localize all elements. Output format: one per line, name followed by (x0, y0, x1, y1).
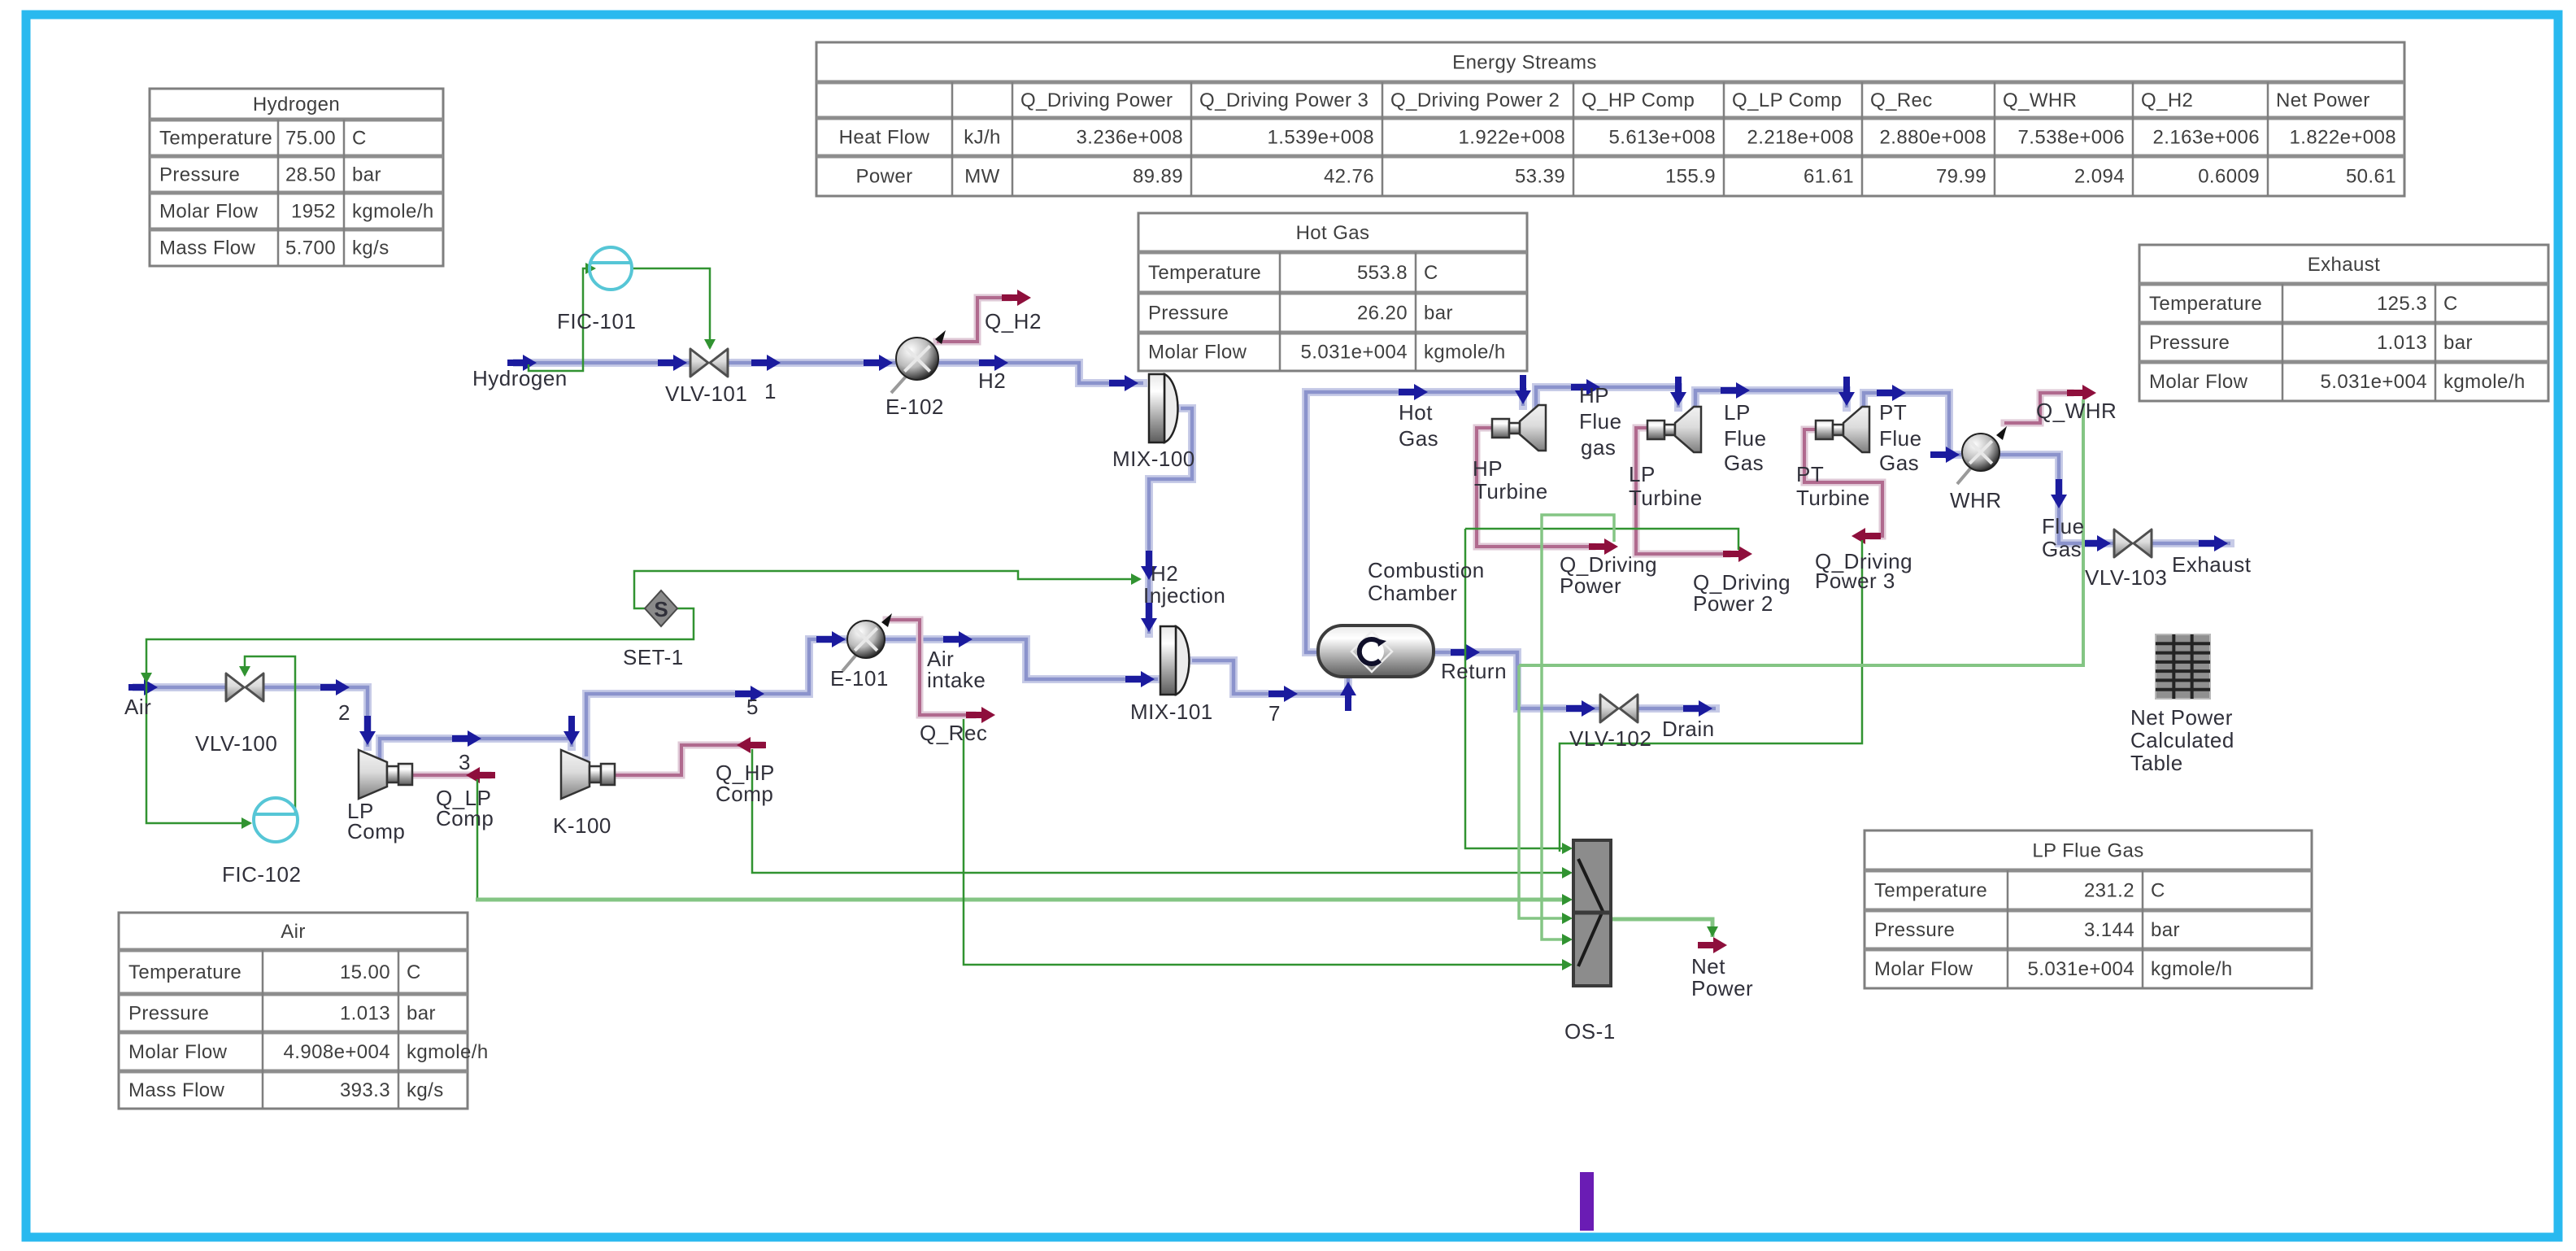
svg-text:K-100: K-100 (553, 813, 611, 838)
svg-text:bar: bar (407, 1003, 436, 1025)
svg-text:5.031e+004: 5.031e+004 (1301, 342, 1408, 364)
svg-text:26.20: 26.20 (1357, 303, 1408, 325)
wire stream 5 : K-100 to E-101 (586, 639, 849, 756)
svg-text:5.613e+008: 5.613e+008 (1609, 127, 1716, 149)
svg-text:VLV-102: VLV-102 (1569, 726, 1651, 751)
wire energy Q_Driving Power 2 from LP Turbine (1636, 428, 1727, 554)
svg-text:3.236e+008: 3.236e+008 (1077, 127, 1183, 149)
calculated table icon (2156, 634, 2210, 699)
svg-text:1952: 1952 (291, 201, 336, 223)
svg-text:Pressure: Pressure (128, 1003, 209, 1025)
wire energy Q_WHR from WHR (2004, 393, 2070, 423)
svg-text:Comp: Comp (716, 782, 773, 806)
svg-text:Power 3: Power 3 (1815, 569, 1895, 593)
wire energy Q_LP Comp to LP Comp (413, 772, 488, 779)
wire green Q_Driving Power 2 branch (1465, 529, 1738, 550)
svg-text:SET-1: SET-1 (623, 645, 684, 669)
wire stream Air to VLV-100 (137, 683, 228, 691)
svg-text:Turbine: Turbine (1474, 479, 1548, 503)
svg-text:C: C (352, 128, 367, 150)
wire stream 2 : VLV-100 to LP Comp (263, 687, 368, 747)
valve VLV-100 (226, 673, 263, 701)
svg-text:4.908e+004: 4.908e+004 (284, 1041, 390, 1063)
svg-text:1.539e+008: 1.539e+008 (1268, 127, 1374, 149)
svg-text:intake: intake (927, 668, 986, 692)
table Hot Gas (1138, 213, 1527, 371)
svg-text:1.922e+008: 1.922e+008 (1459, 127, 1565, 149)
svg-text:79.99: 79.99 (1936, 166, 1986, 188)
svg-text:393.3: 393.3 (340, 1079, 390, 1101)
compressor LP Comp (359, 750, 412, 799)
svg-text:5.031e+004: 5.031e+004 (2321, 371, 2427, 393)
turbine PT Turbine (1816, 407, 1869, 452)
table Exhaust (2139, 245, 2548, 401)
combustion chamber vessel (1318, 625, 1434, 677)
svg-text:bar: bar (2151, 919, 2180, 941)
svg-text:553.8: 553.8 (1357, 262, 1408, 284)
svg-text:Net Power: Net Power (2130, 705, 2233, 730)
svg-text:Temperature: Temperature (1148, 262, 1261, 284)
svg-text:Heat Flow: Heat Flow (839, 127, 930, 149)
svg-text:Gas: Gas (1724, 451, 1764, 475)
svg-text:Mass Flow: Mass Flow (159, 238, 256, 259)
svg-text:Q_Rec: Q_Rec (920, 721, 987, 745)
svg-text:Q_WHR: Q_WHR (2003, 89, 2077, 111)
svg-text:2.094: 2.094 (2074, 166, 2125, 188)
svg-text:Pressure: Pressure (2149, 332, 2230, 354)
svg-text:kgmole/h: kgmole/h (2151, 958, 2233, 980)
svg-text:53.39: 53.39 (1515, 166, 1565, 188)
svg-text:MW: MW (964, 166, 999, 188)
wire FIC-102 output loop to VLV-100 (245, 656, 295, 813)
svg-text:2.218e+008: 2.218e+008 (1747, 127, 1854, 149)
wire green Q_Driving Power to OS-1 input 5 (1542, 515, 1614, 939)
wire stream Drain : VLV-102 outlet (1637, 704, 1716, 713)
svg-text:C: C (1424, 262, 1438, 284)
svg-text:Hydrogen: Hydrogen (472, 366, 568, 390)
valve VLV-101 (690, 349, 728, 377)
svg-text:Drain: Drain (1662, 717, 1715, 741)
svg-text:231.2: 231.2 (2084, 880, 2134, 902)
svg-text:Comp: Comp (436, 806, 494, 830)
svg-text:Pressure: Pressure (159, 164, 240, 186)
wire green Q_HP Comp to OS-1 input 2 (752, 749, 1568, 873)
svg-text:Hydrogen: Hydrogen (253, 94, 340, 116)
svg-text:Return: Return (1441, 659, 1507, 683)
compressor K-100 (561, 750, 615, 799)
svg-text:C: C (2443, 293, 2458, 315)
svg-text:Hot: Hot (1399, 400, 1433, 425)
svg-text:Q_Driving Power 3: Q_Driving Power 3 (1199, 89, 1368, 111)
heat exchanger E-101 (842, 613, 892, 671)
svg-text:Pressure: Pressure (1874, 919, 1955, 941)
wire energy Q_Driving Power 3 from PT Turbine (1804, 429, 1882, 536)
wire stream 3 : LP Comp to K-100 (380, 739, 572, 760)
svg-text:Combustion: Combustion (1368, 558, 1485, 582)
mixer MIX-101 (1160, 626, 1189, 695)
svg-text:bar: bar (1424, 303, 1453, 325)
svg-text:E-102: E-102 (885, 394, 944, 419)
set operator SET-1 (645, 591, 677, 626)
svg-text:C: C (407, 961, 421, 983)
svg-text:kgmole/h: kgmole/h (352, 201, 434, 223)
valve VLV-103 (2114, 530, 2152, 557)
svg-text:2.880e+008: 2.880e+008 (1880, 127, 1986, 149)
wire MIX-100 outlet / H2 Injection to MIX-101 (1149, 408, 1192, 634)
svg-text:Q_LP Comp: Q_LP Comp (1732, 89, 1842, 111)
svg-text:HP: HP (1473, 456, 1503, 481)
svg-text:125.3: 125.3 (2377, 293, 2427, 315)
wire stream 7 : MIX-101 to Combustion Chamber (1192, 660, 1348, 694)
svg-text:OS-1: OS-1 (1564, 1019, 1616, 1044)
svg-text:Hot Gas: Hot Gas (1296, 222, 1370, 244)
svg-text:Q_Rec: Q_Rec (1870, 89, 1933, 111)
svg-text:3: 3 (459, 750, 471, 774)
svg-text:Gas: Gas (2042, 537, 2082, 561)
wire green to OS-1 input 4 (1519, 665, 1568, 918)
svg-text:Net: Net (1691, 954, 1725, 979)
svg-text:Exhaust: Exhaust (2308, 254, 2381, 276)
svg-text:Molar Flow: Molar Flow (128, 1041, 228, 1063)
svg-text:MIX-101: MIX-101 (1130, 700, 1213, 724)
wire energy Q_Rec from E-101 (886, 620, 973, 715)
svg-text:Q_H2: Q_H2 (985, 309, 1042, 333)
svg-text:5.031e+004: 5.031e+004 (2028, 958, 2134, 980)
svg-text:H2: H2 (978, 368, 1006, 393)
svg-text:50.61: 50.61 (2346, 166, 2396, 188)
wire energy Q_HP Comp to K-100 (616, 745, 761, 775)
svg-text:VLV-101: VLV-101 (665, 381, 747, 406)
svg-text:Injection: Injection (1143, 583, 1225, 608)
wire green Q_Driving Power 3 down (1560, 540, 1862, 852)
svg-text:Air: Air (124, 695, 151, 719)
svg-text:VLV-100: VLV-100 (195, 731, 277, 756)
svg-text:155.9: 155.9 (1665, 166, 1716, 188)
svg-text:E-101: E-101 (830, 666, 889, 691)
svg-text:Flue: Flue (1724, 426, 1767, 451)
svg-text:Q_WHR: Q_WHR (2036, 399, 2117, 423)
svg-text:Power: Power (1691, 976, 1753, 1000)
wire stream Hot Gas : Combustion Chamber to HP Turbine (1306, 392, 1523, 652)
svg-text:7: 7 (1268, 701, 1281, 726)
svg-text:PT: PT (1796, 462, 1824, 486)
svg-text:2.163e+006: 2.163e+006 (2153, 127, 2260, 149)
svg-text:5: 5 (746, 695, 759, 719)
wire stream Return : Combustion Chamber to VLV-102 (1431, 652, 1601, 708)
svg-text:Mass Flow: Mass Flow (128, 1079, 225, 1101)
svg-text:1.013: 1.013 (340, 1003, 390, 1025)
wire FIC-101 process tap from Hydrogen stream (529, 268, 594, 371)
svg-text:kg/s: kg/s (352, 238, 389, 259)
wire green Q_LP Comp to OS-1 input 3 (476, 779, 479, 900)
svg-text:S: S (654, 597, 668, 621)
svg-text:1: 1 (764, 379, 777, 403)
wire stream Hydrogen to VLV-101 (517, 359, 692, 367)
svg-text:Net Power: Net Power (2276, 89, 2370, 111)
svg-text:PT: PT (1879, 400, 1907, 425)
svg-text:Power 2: Power 2 (1693, 591, 1773, 616)
svg-text:FIC-101: FIC-101 (557, 309, 636, 333)
svg-text:Q_H2: Q_H2 (2141, 89, 2193, 111)
svg-text:MIX-100: MIX-100 (1112, 447, 1195, 471)
svg-text:Molar Flow: Molar Flow (1148, 342, 1247, 364)
mixer MIX-100 (1149, 374, 1177, 442)
svg-text:Calculated: Calculated (2130, 728, 2234, 752)
svg-text:LP: LP (1629, 462, 1656, 486)
turbine HP Turbine (1492, 405, 1546, 451)
svg-text:Temperature: Temperature (1874, 880, 1987, 902)
wire stream PT Flue Gas : PT Turbine to WHR (1864, 393, 1961, 455)
wire green Q_WHR down and across (1519, 399, 2083, 665)
heat exchanger WHR (1957, 426, 2007, 484)
svg-text:Chamber: Chamber (1368, 581, 1457, 605)
green arrows into OS-1 (1562, 843, 1573, 854)
svg-text:75.00: 75.00 (285, 128, 336, 150)
svg-text:C: C (2151, 880, 2165, 902)
svg-text:HP: HP (1579, 383, 1609, 408)
svg-text:Temperature: Temperature (128, 961, 241, 983)
svg-text:kg/s: kg/s (407, 1079, 444, 1101)
svg-text:7.538e+006: 7.538e+006 (2018, 127, 2125, 149)
svg-text:Molar Flow: Molar Flow (159, 201, 259, 223)
wire energy Q_H2 from E-102 (937, 298, 1008, 342)
svg-text:kgmole/h: kgmole/h (407, 1041, 489, 1063)
svg-text:Q_Driving Power: Q_Driving Power (1020, 89, 1173, 111)
svg-text:Temperature: Temperature (2149, 293, 2262, 315)
svg-text:Gas: Gas (1879, 451, 1919, 475)
svg-text:Power: Power (855, 166, 912, 188)
wire green OS-1 output to Net Power (1612, 919, 1712, 937)
wire green Q_Rec to OS-1 input 6 (964, 719, 1568, 965)
svg-text:kgmole/h: kgmole/h (2443, 371, 2526, 393)
svg-text:Turbine: Turbine (1796, 486, 1870, 510)
valve VLV-102 (1600, 695, 1638, 722)
controller FIC-101 (590, 247, 632, 290)
heat exchanger E-102 (891, 330, 946, 393)
wire FIC-101 output to VLV-101 (632, 268, 710, 348)
svg-text:H2: H2 (1151, 561, 1178, 586)
svg-text:3.144: 3.144 (2084, 919, 2134, 941)
svg-text:5.700: 5.700 (285, 238, 336, 259)
wire energy Q_Driving Power from HP Turbine (1477, 428, 1592, 547)
svg-text:Flue: Flue (1879, 426, 1922, 451)
svg-text:61.61: 61.61 (1804, 166, 1854, 188)
svg-text:bar: bar (2443, 332, 2473, 354)
svg-text:Molar Flow: Molar Flow (2149, 371, 2248, 393)
turbine LP Turbine (1647, 407, 1701, 452)
svg-text:Energy Streams: Energy Streams (1452, 52, 1597, 74)
svg-text:Pressure: Pressure (1148, 303, 1229, 325)
purple scrollbar mark (1580, 1172, 1594, 1231)
wire stream HP Flue gas : HP Turbine to LP Turbine (1536, 387, 1678, 408)
svg-text:Flue: Flue (1579, 409, 1622, 434)
svg-text:Comp: Comp (347, 819, 405, 843)
wire stream Flue Gas : WHR to VLV-103 (1999, 455, 2115, 543)
svg-text:Gas: Gas (1399, 426, 1438, 451)
svg-text:Air: Air (281, 921, 306, 943)
table LP Flue Gas (1865, 830, 2312, 988)
wire stream 1 : VLV-101 to E-102 (726, 359, 898, 367)
svg-text:Molar Flow: Molar Flow (1874, 958, 1973, 980)
svg-text:2: 2 (338, 700, 350, 725)
wire stream LP Flue Gas : LP Turbine to PT Turbine (1695, 390, 1847, 410)
table Air (119, 913, 489, 1109)
svg-text:28.50: 28.50 (285, 164, 336, 186)
stream arrows (507, 355, 537, 371)
svg-text:0.6009: 0.6009 (2198, 166, 2260, 188)
svg-text:kJ/h: kJ/h (964, 127, 1001, 149)
svg-text:kgmole/h: kgmole/h (1424, 342, 1506, 364)
svg-text:Temperature: Temperature (159, 128, 272, 150)
svg-text:gas: gas (1581, 435, 1616, 460)
svg-text:VLV-103: VLV-103 (2085, 565, 2167, 590)
svg-text:LP: LP (1724, 400, 1751, 425)
svg-text:LP Flue Gas: LP Flue Gas (2032, 840, 2143, 862)
svg-text:bar: bar (352, 164, 381, 186)
table Energy Streams (816, 42, 2404, 196)
wire stream Air intake : E-101 to MIX-101 (885, 639, 1158, 679)
svg-text:Flue: Flue (2042, 514, 2085, 538)
svg-text:15.00: 15.00 (340, 961, 390, 983)
table Hydrogen (150, 89, 443, 266)
svg-text:Q_Driving Power 2: Q_Driving Power 2 (1390, 89, 1560, 111)
svg-text:1.013: 1.013 (2377, 332, 2427, 354)
svg-text:89.89: 89.89 (1133, 166, 1183, 188)
wire green to OS-1 input 1 (1465, 529, 1568, 848)
svg-text:42.76: 42.76 (1324, 166, 1374, 188)
svg-text:FIC-102: FIC-102 (222, 862, 301, 887)
svg-text:Q_HP Comp: Q_HP Comp (1582, 89, 1695, 111)
svg-text:Turbine: Turbine (1629, 486, 1703, 510)
wire stream H2 : E-102 to MIX-100 (937, 363, 1143, 383)
svg-text:Table: Table (2130, 751, 2183, 775)
wire stream Exhaust : VLV-103 outlet (2151, 539, 2230, 547)
svg-text:1.822e+008: 1.822e+008 (2290, 127, 2396, 149)
svg-text:Power: Power (1560, 573, 1621, 598)
wire SET-1 right connection down to FIC-102 line (146, 608, 694, 823)
wire energy Net Power arrow (1698, 937, 1727, 953)
svg-text:WHR: WHR (1950, 488, 2002, 512)
controller FIC-102 (254, 798, 298, 842)
svg-text:Exhaust: Exhaust (2172, 552, 2252, 577)
wire SET-1 left connection (634, 571, 1140, 608)
selector block OS-1 (1573, 840, 1611, 986)
